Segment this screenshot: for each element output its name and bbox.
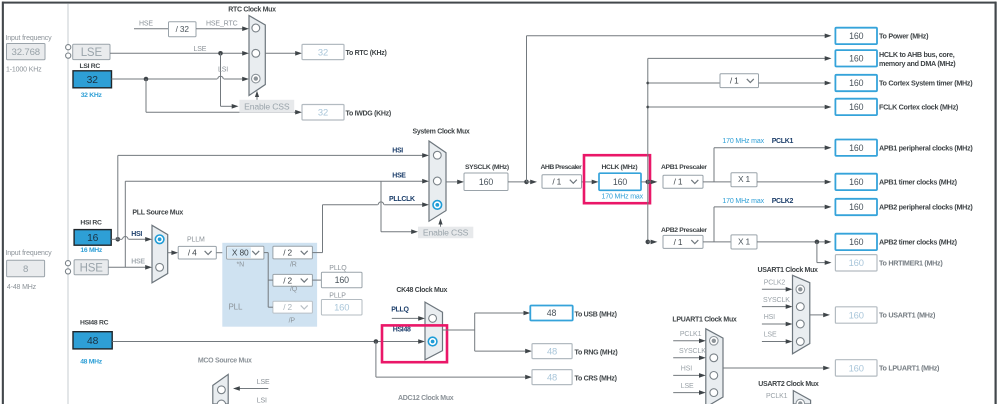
- svg-text:PLLM: PLLM: [187, 236, 205, 243]
- svg-text:HSE: HSE: [131, 259, 145, 266]
- svg-text:APB2 Prescaler: APB2 Prescaler: [661, 227, 707, 234]
- svg-text:/ 2: / 2: [283, 248, 292, 258]
- svg-text:160: 160: [849, 362, 864, 373]
- svg-text:160: 160: [849, 143, 863, 153]
- svg-text:CK48 Clock Mux: CK48 Clock Mux: [396, 287, 447, 294]
- svg-text:HSE_RTC: HSE_RTC: [206, 20, 238, 27]
- svg-text:HSI48 RC: HSI48 RC: [80, 319, 109, 326]
- svg-text:SYSCLK: SYSCLK: [763, 297, 790, 304]
- svg-text:48 MHz: 48 MHz: [80, 358, 103, 365]
- svg-text:HSE: HSE: [80, 262, 104, 274]
- svg-text:48: 48: [547, 308, 557, 318]
- svg-text:/ 2: / 2: [283, 302, 292, 312]
- svg-text:170 MHz max: 170 MHz max: [722, 138, 764, 145]
- svg-text:LSE: LSE: [257, 379, 270, 386]
- svg-text:To USB (MHz): To USB (MHz): [575, 312, 617, 319]
- svg-text:HSI: HSI: [764, 314, 775, 321]
- svg-text:To LPUART1 (MHz): To LPUART1 (MHz): [879, 364, 940, 373]
- svg-text:X 80: X 80: [232, 248, 249, 258]
- svg-text:HSI: HSI: [131, 231, 142, 238]
- svg-text:32 KHz: 32 KHz: [81, 92, 103, 99]
- svg-text:APB1 timer clocks (MHz): APB1 timer clocks (MHz): [879, 178, 958, 187]
- svg-text:To Power (MHz): To Power (MHz): [879, 32, 929, 41]
- svg-text:160: 160: [334, 302, 349, 313]
- svg-text:To RTC (KHz): To RTC (KHz): [346, 50, 387, 57]
- svg-text:/Q: /Q: [290, 286, 298, 293]
- svg-text:160: 160: [335, 275, 349, 285]
- svg-text:To RNG (MHz): To RNG (MHz): [575, 350, 618, 357]
- svg-text:16: 16: [87, 233, 99, 244]
- svg-text:16 MHz: 16 MHz: [80, 247, 103, 254]
- svg-text:To IWDG (KHz): To IWDG (KHz): [346, 110, 391, 117]
- svg-text:HSI RC: HSI RC: [80, 220, 102, 227]
- svg-text:LSI: LSI: [257, 397, 267, 404]
- svg-text:48: 48: [547, 345, 557, 356]
- svg-text:HSI: HSI: [392, 148, 403, 155]
- svg-text:HSI48: HSI48: [393, 327, 411, 334]
- svg-text:PLLP: PLLP: [329, 293, 346, 300]
- svg-text:PCLK1: PCLK1: [772, 138, 794, 145]
- svg-text:PCLK2: PCLK2: [764, 280, 786, 287]
- svg-text:HCLK to AHB bus, core,: HCLK to AHB bus, core,: [879, 50, 955, 59]
- svg-text:/ 1: / 1: [674, 237, 683, 247]
- svg-text:160: 160: [479, 177, 493, 187]
- svg-text:APB2 peripheral clocks (MHz): APB2 peripheral clocks (MHz): [879, 203, 973, 212]
- svg-text:160: 160: [849, 309, 864, 320]
- svg-text:APB2 timer clocks (MHz): APB2 timer clocks (MHz): [879, 238, 958, 247]
- svg-text:160: 160: [849, 237, 863, 247]
- svg-text:APB1 Prescaler: APB1 Prescaler: [661, 164, 707, 171]
- svg-text:170 MHz max: 170 MHz max: [722, 198, 764, 205]
- svg-text:160: 160: [849, 202, 863, 212]
- svg-text:MCO Source Mux: MCO Source Mux: [198, 358, 252, 365]
- svg-text:160: 160: [849, 31, 863, 41]
- svg-text:160: 160: [849, 177, 863, 187]
- svg-text:48: 48: [547, 371, 557, 382]
- svg-text:HSE: HSE: [139, 20, 153, 27]
- svg-text:LSI RC: LSI RC: [80, 63, 101, 70]
- svg-text:HSE: HSE: [392, 173, 406, 180]
- svg-text:/ 1: / 1: [730, 76, 739, 86]
- svg-text:memory and DMA (MHz): memory and DMA (MHz): [879, 59, 956, 68]
- svg-text:LSI: LSI: [218, 67, 228, 74]
- svg-text:HSI: HSI: [681, 366, 692, 373]
- svg-text:Enable CSS: Enable CSS: [244, 101, 290, 111]
- svg-text:Enable CSS: Enable CSS: [423, 227, 469, 237]
- svg-text:PLLQ: PLLQ: [391, 307, 409, 314]
- svg-text:32: 32: [87, 75, 99, 86]
- svg-text:32.768: 32.768: [12, 47, 40, 58]
- svg-text:USART1 Clock Mux: USART1 Clock Mux: [758, 267, 819, 274]
- svg-text:SYSCLK (MHz): SYSCLK (MHz): [465, 164, 509, 171]
- svg-text:PCLK2: PCLK2: [772, 198, 794, 205]
- svg-text:LSE: LSE: [194, 46, 207, 53]
- svg-text:To CRS (MHz): To CRS (MHz): [575, 376, 617, 383]
- svg-text:FCLK Cortex clock (MHz): FCLK Cortex clock (MHz): [879, 103, 959, 112]
- svg-text:/P: /P: [289, 318, 296, 325]
- svg-text:160: 160: [849, 53, 863, 63]
- svg-text:/ 32: / 32: [176, 24, 190, 34]
- svg-text:48: 48: [87, 336, 99, 347]
- svg-text:/ 1: / 1: [674, 177, 683, 187]
- svg-text:/ 2: / 2: [283, 275, 292, 285]
- svg-text:LSE: LSE: [681, 383, 694, 390]
- svg-text:32: 32: [318, 107, 328, 118]
- svg-text:SYSCLK: SYSCLK: [679, 348, 706, 355]
- svg-text:Input frequency: Input frequency: [6, 35, 53, 42]
- svg-text:1-1000 KHz: 1-1000 KHz: [6, 67, 42, 74]
- svg-text:ADC12 Clock Mux: ADC12 Clock Mux: [398, 395, 454, 402]
- svg-text:LPUART1 Clock Mux: LPUART1 Clock Mux: [672, 316, 737, 323]
- svg-text:PLL: PLL: [229, 303, 243, 312]
- svg-text:LSE: LSE: [764, 332, 777, 339]
- svg-text:AHB Prescaler: AHB Prescaler: [541, 164, 583, 171]
- svg-text:HCLK (MHz): HCLK (MHz): [602, 164, 638, 171]
- svg-text:160: 160: [849, 257, 864, 268]
- svg-text:PCLK1: PCLK1: [766, 393, 788, 400]
- svg-text:To USART1 (MHz): To USART1 (MHz): [879, 311, 936, 320]
- svg-text:X 1: X 1: [738, 174, 751, 184]
- svg-text:PLL Source Mux: PLL Source Mux: [132, 210, 183, 217]
- svg-text:PCLK1: PCLK1: [680, 331, 702, 338]
- svg-text:RTC Clock Mux: RTC Clock Mux: [228, 7, 276, 14]
- svg-text:160: 160: [613, 177, 627, 187]
- svg-text:8: 8: [23, 264, 28, 275]
- svg-text:*N: *N: [237, 262, 245, 269]
- svg-text:APB1 peripheral clocks (MHz): APB1 peripheral clocks (MHz): [879, 143, 973, 152]
- svg-text:170 MHz max: 170 MHz max: [602, 194, 644, 201]
- svg-text:32: 32: [318, 46, 328, 57]
- svg-text:160: 160: [849, 78, 863, 88]
- svg-text:Input frequency: Input frequency: [6, 250, 53, 257]
- svg-text:/R: /R: [290, 262, 297, 269]
- svg-text:To Cortex System timer (MHz): To Cortex System timer (MHz): [879, 79, 973, 88]
- svg-text:LSE: LSE: [81, 47, 103, 59]
- svg-text:PLLQ: PLLQ: [329, 265, 347, 272]
- svg-text:160: 160: [849, 102, 863, 112]
- svg-text:To HRTIMER1 (MHz): To HRTIMER1 (MHz): [879, 258, 943, 267]
- svg-text:PLLCLK: PLLCLK: [389, 196, 415, 203]
- svg-text:/ 4: / 4: [188, 248, 197, 258]
- svg-text:System Clock Mux: System Clock Mux: [412, 129, 469, 136]
- svg-text:4-48 MHz: 4-48 MHz: [7, 284, 37, 291]
- svg-text:X 1: X 1: [738, 236, 751, 246]
- svg-text:/ 1: / 1: [552, 176, 561, 186]
- svg-text:USART2 Clock Mux: USART2 Clock Mux: [758, 381, 819, 388]
